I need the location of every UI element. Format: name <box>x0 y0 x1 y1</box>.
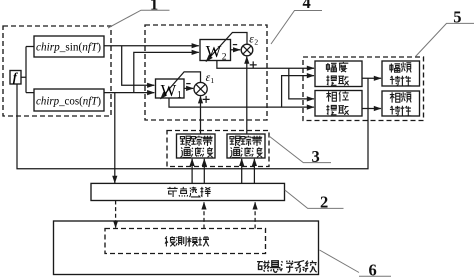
svg-text:W: W <box>206 42 222 61</box>
svg-text:W: W <box>161 81 177 100</box>
svg-text:2: 2 <box>254 37 258 46</box>
svg-text:4: 4 <box>303 0 311 12</box>
svg-text:5: 5 <box>453 8 461 27</box>
svg-text:6: 6 <box>369 261 377 277</box>
svg-text:2: 2 <box>222 53 227 63</box>
svg-text:1: 1 <box>210 76 214 85</box>
svg-text:1: 1 <box>177 91 182 101</box>
svg-text:1: 1 <box>150 0 158 14</box>
svg-text:3: 3 <box>312 147 320 166</box>
svg-text:2: 2 <box>320 193 328 212</box>
svg-text:chirp_sin(nfT): chirp_sin(nfT) <box>36 40 101 54</box>
svg-text:chirp_cos(nfT): chirp_cos(nfT) <box>36 93 101 107</box>
